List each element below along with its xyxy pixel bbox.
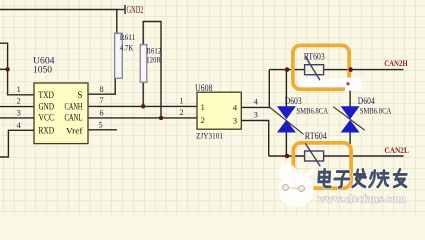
svg-text:GND2: GND2	[127, 5, 144, 16]
svg-text:U608: U608	[195, 83, 213, 93]
svg-text:4.7K: 4.7K	[120, 42, 134, 52]
wire left mid feed	[0, 68, 8, 70]
PTC resistor symbol (RT603)	[305, 57, 324, 80]
svg-text:6: 6	[100, 109, 104, 118]
stray red dot	[346, 82, 349, 85]
svg-text:ZJY3101: ZJY3101	[196, 130, 223, 140]
svg-text:D604: D604	[358, 96, 375, 106]
white patch over RT603	[300, 79, 347, 87]
svg-text:S: S	[77, 90, 82, 100]
wire U608 pin3 down to CANL bus	[241, 121, 268, 157]
svg-text:1: 1	[17, 85, 21, 94]
svg-text:CANL: CANL	[65, 113, 83, 123]
TVS diode D604	[333, 106, 365, 132]
svg-text:3: 3	[254, 111, 258, 120]
wire CANH row U604 to U608	[88, 105, 197, 107]
node R612/CANH junction	[141, 104, 145, 108]
ground port GND2 bar	[124, 5, 126, 14]
svg-text:1050: 1050	[33, 64, 53, 74]
wire D603 bottom	[285, 132, 287, 156]
svg-text:TXD: TXD	[39, 90, 55, 100]
wire RXD pin4	[0, 130, 34, 157]
svg-text:2: 2	[17, 96, 21, 105]
IC U608 body	[197, 92, 241, 129]
TVS diode D603	[270, 106, 304, 134]
svg-text:GND: GND	[39, 101, 55, 111]
wire GND2 horizontal feed	[0, 10, 117, 34]
resistor R612 body	[140, 45, 147, 83]
svg-text:4: 4	[233, 103, 238, 113]
svg-text:SMB6.8CA: SMB6.8CA	[297, 105, 329, 115]
PTC resistor symbol (RT604)	[305, 143, 324, 166]
svg-text:CAN2L: CAN2L	[384, 145, 409, 155]
IC U604 body	[34, 83, 88, 144]
wire D603 top	[285, 70, 287, 107]
svg-text:3: 3	[233, 115, 238, 125]
node D603/CANH junction	[285, 67, 290, 72]
wire hook from R612 top to node column	[143, 22, 161, 118]
wire GND2 stub to bar	[117, 9, 125, 11]
svg-text:2: 2	[201, 115, 205, 125]
wire VCC pin3	[0, 117, 34, 119]
wire CANH bus	[269, 69, 304, 71]
wire GND pin2	[0, 106, 34, 108]
node D603/CANL junction	[285, 154, 290, 159]
wire D604 bottom	[349, 132, 351, 156]
svg-text:www.elecfans.com: www.elecfans.com	[318, 193, 407, 205]
watermark Chinese text (pseudo glyphs)	[318, 169, 407, 187]
node D604/CANH junction	[348, 67, 353, 72]
svg-text:5: 5	[99, 121, 103, 130]
wire U608 pin4 up to CANH bus	[241, 70, 269, 108]
svg-text:D603: D603	[285, 96, 302, 106]
wire pin5 Vref stub	[88, 129, 117, 131]
svg-text:3: 3	[17, 109, 21, 118]
wire D604 top	[349, 70, 351, 107]
watermark logo	[279, 164, 314, 207]
svg-text:1: 1	[201, 102, 205, 112]
svg-text:CANH: CANH	[65, 101, 83, 111]
wire R612 bottom	[142, 82, 144, 106]
svg-text:RT604: RT604	[305, 131, 327, 141]
svg-text:VCC: VCC	[39, 113, 55, 123]
node termination/CANL junction	[159, 116, 163, 120]
wire left TXD feed	[0, 43, 34, 95]
node left TXD junction	[5, 67, 9, 71]
svg-text:R611: R611	[120, 32, 136, 42]
svg-text:SMB6.8CA: SMB6.8CA	[360, 105, 392, 115]
thermistor RT604 highlight box	[293, 143, 351, 188]
svg-text:RXD: RXD	[39, 126, 55, 136]
resistor R611 body	[115, 33, 123, 78]
svg-text:8: 8	[100, 85, 104, 94]
svg-text:120R: 120R	[146, 54, 161, 64]
wire CANL row U604 to U608	[88, 117, 197, 119]
wire CANL bus	[269, 155, 305, 157]
svg-text:2: 2	[179, 108, 183, 117]
thermistor RT603 highlight box	[293, 45, 349, 89]
svg-text:CAN2H: CAN2H	[384, 58, 408, 68]
svg-text:1: 1	[179, 96, 183, 105]
svg-text:7: 7	[100, 96, 104, 105]
svg-text:Vref: Vref	[66, 126, 83, 136]
wire pin8 S to R611	[88, 78, 115, 94]
